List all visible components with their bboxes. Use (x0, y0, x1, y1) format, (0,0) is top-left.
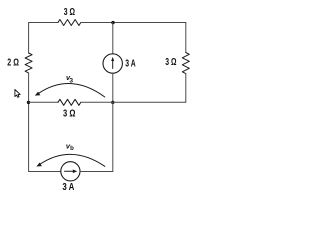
wire bottom-right segment (80, 171, 113, 173)
wire top-right segment (81, 22, 186, 24)
svg-text:3 Ω: 3 Ω (64, 7, 75, 18)
current source 3A middle (circle) (103, 54, 122, 73)
svg-text:2 Ω: 2 Ω (7, 58, 19, 69)
svg-text:b: b (70, 146, 74, 152)
svg-text:3 Ω: 3 Ω (63, 109, 76, 120)
resistor 3ohm middle (58, 99, 81, 105)
wire right lower (185, 74, 187, 103)
wire middle-left horizontal a (29, 101, 58, 103)
wire middle branch mid (112, 73, 114, 102)
wire middle branch upper (112, 23, 114, 54)
wire bottom-left segment (29, 171, 61, 173)
svg-text:3 A: 3 A (125, 58, 135, 69)
wire middle-right horizontal (113, 101, 186, 103)
junction dot middle (111, 101, 114, 104)
voltage arc vb (40, 154, 105, 166)
wire right upper (185, 23, 187, 53)
wire left upper (28, 23, 30, 54)
current source 3A middle arrow (112, 61, 114, 69)
wire middle-left horizontal b (81, 101, 113, 103)
resistor 2ohm left (25, 53, 32, 73)
svg-text:3 A: 3 A (62, 182, 74, 193)
resistor 3ohm top (58, 20, 81, 26)
current source 3A bottom arrow (65, 170, 74, 172)
junction dot left-middle (27, 101, 30, 104)
resistor 3ohm right (182, 53, 189, 74)
wire top-left segment (29, 22, 58, 24)
current source 3A bottom (circle) (61, 162, 80, 181)
wire middle branch lower (112, 102, 114, 171)
wire left lower (28, 73, 30, 172)
svg-text:3 Ω: 3 Ω (165, 57, 176, 68)
svg-text:3: 3 (69, 78, 73, 85)
voltage arc v3 (39, 84, 105, 97)
junction dot top (111, 21, 114, 24)
mouse cursor (15, 90, 20, 98)
